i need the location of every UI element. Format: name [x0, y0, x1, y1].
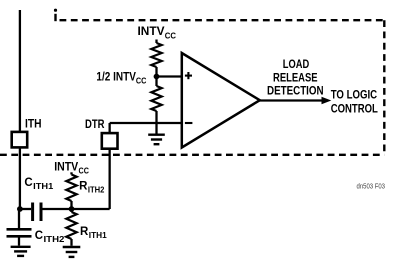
svg-text:CONTROL: CONTROL [331, 104, 378, 116]
svg-text:ITH1: ITH1 [89, 230, 107, 240]
svg-text:DETECTION: DETECTION [267, 86, 324, 98]
svg-text:INTV: INTV [54, 162, 78, 174]
svg-text:LOAD: LOAD [283, 59, 309, 71]
svg-text:CC: CC [79, 166, 89, 176]
svg-text:R: R [80, 226, 89, 238]
svg-text:C: C [35, 230, 43, 242]
svg-text:1/2 INTV: 1/2 INTV [96, 71, 136, 83]
svg-text:ITH: ITH [25, 118, 42, 130]
svg-text:CC: CC [165, 30, 176, 40]
svg-text:ITH1: ITH1 [33, 181, 53, 191]
svg-text:RELEASE: RELEASE [273, 73, 318, 85]
svg-text:DTR: DTR [85, 119, 105, 131]
svg-text:R: R [79, 180, 88, 192]
svg-text:TO LOGIC: TO LOGIC [331, 90, 377, 102]
svg-text:ITH2: ITH2 [44, 234, 65, 244]
svg-text:INTV: INTV [138, 26, 165, 38]
svg-text:C: C [24, 177, 32, 189]
svg-text:CC: CC [136, 75, 147, 85]
svg-text:ITH2: ITH2 [88, 184, 105, 194]
svg-text:dn503 F03: dn503 F03 [357, 181, 386, 190]
